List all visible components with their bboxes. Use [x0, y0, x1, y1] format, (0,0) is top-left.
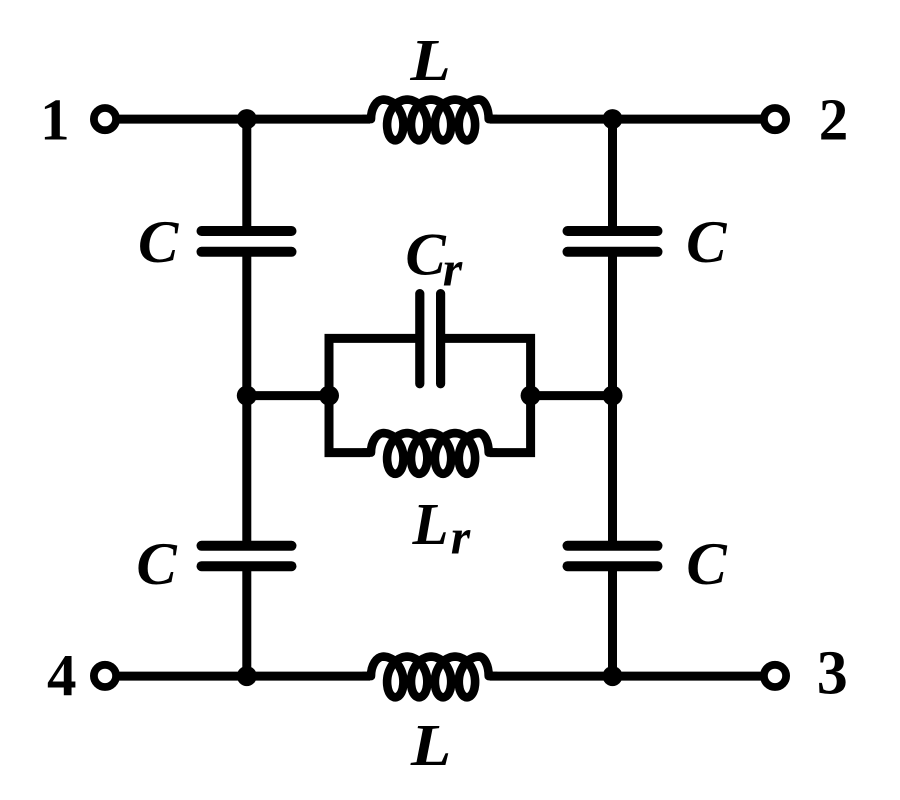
capacitor Cr plate A — [415, 294, 424, 384]
node junction top-left — [237, 109, 257, 129]
capacitor C top-left plate A — [202, 226, 292, 236]
node junction bottom-right — [603, 666, 623, 686]
terminal port 1 — [94, 108, 116, 130]
node junction mid-left — [237, 386, 257, 406]
svg-text:C: C — [136, 531, 177, 598]
wire bottom rail right — [490, 672, 761, 681]
capacitor C top-left plate B — [202, 247, 292, 257]
wire right column bottom — [608, 566, 617, 676]
capacitor C top-right plate A — [568, 226, 658, 236]
wire right column lower — [608, 396, 617, 546]
capacitor C bottom-right plate B — [568, 561, 658, 571]
wire right column middle — [608, 252, 617, 396]
svg-text:L: L — [409, 27, 450, 93]
wire left column bottom — [242, 566, 251, 676]
inductor L (bottom) — [363, 657, 497, 698]
wire resonator to node right — [531, 391, 613, 400]
svg-text:2: 2 — [819, 86, 849, 152]
node junction bottom-left — [237, 666, 257, 686]
svg-text:4: 4 — [47, 642, 77, 708]
wire top rail left — [119, 115, 370, 124]
node junction mid-right — [603, 386, 623, 406]
inductor L (top) — [363, 100, 497, 141]
svg-text:C: C — [138, 209, 179, 276]
svg-text:C: C — [686, 531, 727, 598]
wire resonator loop right half — [445, 338, 531, 452]
terminal port 4 — [94, 665, 116, 687]
terminal port 2 — [764, 108, 786, 130]
node junction resonator-right — [521, 386, 541, 406]
wire right column upper — [608, 119, 617, 231]
capacitor C bottom-right plate A — [568, 541, 658, 551]
terminal port 3 — [764, 665, 786, 687]
svg-text:C: C — [405, 222, 446, 289]
inductor Lr (resonator) — [363, 433, 497, 474]
svg-text:r: r — [451, 509, 471, 565]
svg-text:r: r — [443, 241, 463, 297]
wire node left to resonator — [247, 391, 329, 400]
capacitor Cr plate B — [436, 294, 445, 384]
wire left column upper — [242, 119, 251, 231]
wire top rail right — [490, 115, 761, 124]
svg-text:L: L — [411, 491, 448, 557]
svg-text:3: 3 — [817, 640, 848, 708]
node junction resonator-left — [319, 386, 339, 406]
wire resonator loop left half — [329, 338, 416, 452]
capacitor C top-right plate B — [568, 247, 658, 257]
wire left column middle — [242, 252, 251, 396]
svg-text:C: C — [686, 209, 727, 276]
capacitor C bottom-left plate A — [202, 541, 292, 551]
svg-text:1: 1 — [40, 87, 70, 153]
node junction top-right — [603, 109, 623, 129]
capacitor C bottom-left plate B — [202, 561, 292, 571]
svg-text:L: L — [410, 712, 451, 778]
wire bottom rail left — [119, 672, 370, 681]
wire left column lower — [242, 396, 251, 546]
